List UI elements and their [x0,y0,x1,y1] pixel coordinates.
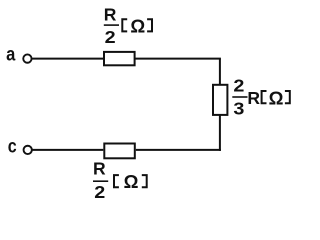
label R/2 [ohm] top [104,4,152,46]
svg-text:2: 2 [94,182,105,202]
terminal a [23,54,31,62]
svg-text:2: 2 [233,76,244,96]
wire R1 to right corner [135,58,221,60]
svg-text:R: R [93,159,106,179]
svg-text:R: R [104,4,117,24]
wire vertical down to R3 [219,59,221,85]
svg-text:c: c [8,137,17,158]
wire R2 to c [32,149,103,151]
wire R3 down to bottom corner [219,115,221,151]
svg-text:3: 3 [233,98,244,118]
svg-text:R: R [247,88,260,108]
svg-text:Ω: Ω [130,16,145,37]
label R/2 [ohm] bottom [93,159,147,202]
svg-text:Ω: Ω [124,171,139,192]
resistor R/2 top [104,52,135,65]
svg-text:Ω: Ω [269,87,284,108]
resistor R/2 bottom [104,144,135,159]
svg-text:a: a [6,44,16,65]
wire a to R1 [32,58,104,60]
wire bottom corner to R2 [136,149,221,151]
svg-text:2: 2 [105,27,116,47]
resistor 2/3 R vertical [213,85,227,115]
terminal c [24,146,32,154]
label 2/3 R[ohm] [232,76,289,119]
